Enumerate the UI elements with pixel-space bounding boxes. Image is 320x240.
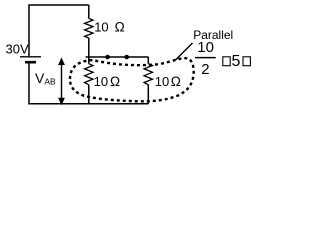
wire battery to bottom [28,62,30,104]
dotted loop around parallel resistors [70,58,194,101]
wire top-left loop [29,5,89,56]
battery 30V [20,57,41,62]
svg-text:2: 2 [201,61,209,78]
svg-text:Ω: Ω [115,19,125,34]
node B [124,55,129,60]
resistor R1 [85,5,93,57]
resistor R3 [144,57,152,104]
svg-text:30V: 30V [6,41,29,56]
svg-text:Ω: Ω [110,74,120,89]
pointer line to Parallel [176,43,193,60]
tofu box 1 [223,57,230,66]
svg-text:Ω: Ω [171,74,181,89]
svg-text:10: 10 [94,74,108,89]
wire middle rail [86,56,149,58]
svg-text:10: 10 [94,19,108,34]
node A [105,55,110,60]
wire bottom rail [28,103,148,105]
tofu box 2 [243,57,250,66]
arrow Vab measurement [58,58,65,106]
resistor R2 [85,57,93,104]
fraction 10/2 [195,39,216,78]
svg-text:10: 10 [197,39,214,56]
svg-text:10: 10 [155,74,169,89]
svg-text:5: 5 [232,53,241,70]
